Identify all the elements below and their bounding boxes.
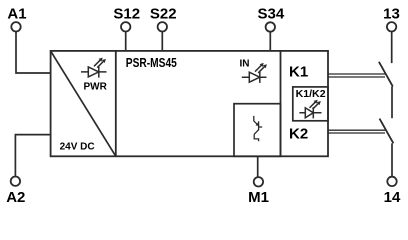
wire M1 to module	[257, 156, 259, 177]
svg-text:PWR: PWR	[84, 81, 108, 92]
mechanical linkage K1 to contact	[328, 74, 385, 77]
wire A1 to module	[16, 32, 51, 73]
svg-text:K2: K2	[289, 125, 308, 142]
terminal 13 circle	[387, 22, 396, 31]
svg-text:S12: S12	[113, 5, 140, 22]
svg-text:24V DC: 24V DC	[60, 141, 95, 152]
relay section divider	[280, 51, 282, 156]
svg-text:A2: A2	[6, 189, 25, 206]
wire S12 to module	[125, 32, 127, 51]
K1/K2 feedback box	[293, 87, 328, 121]
svg-text:M1: M1	[248, 189, 269, 206]
power supply divider	[115, 51, 117, 156]
terminal S34 circle	[266, 22, 275, 31]
svg-text:13: 13	[383, 5, 400, 22]
wire A2 to module	[15, 135, 50, 177]
electronic switch symbol	[254, 116, 262, 141]
terminal S22 circle	[158, 22, 167, 31]
svg-text:14: 14	[384, 189, 401, 206]
svg-text:A1: A1	[7, 5, 26, 22]
electronic output box	[234, 104, 281, 157]
svg-text:S34: S34	[258, 5, 285, 22]
wire S22 to module	[161, 32, 163, 51]
LED PWR symbol	[81, 58, 107, 78]
LED IN symbol	[242, 63, 267, 83]
wire contact K1 to contact K2	[391, 87, 393, 119]
LED K1/K2 symbol	[299, 100, 321, 119]
terminal S12 circle	[121, 22, 130, 31]
terminal M1 circle	[254, 177, 263, 186]
contact K2 blade	[380, 119, 394, 144]
svg-text:K1: K1	[289, 64, 308, 81]
module outline box	[51, 51, 328, 156]
mechanical linkage K2 to contact	[328, 130, 385, 133]
svg-text:S22: S22	[150, 5, 177, 22]
terminal A2 circle	[11, 177, 20, 186]
power supply diagonal	[51, 51, 116, 156]
wire 13 to contact K1	[391, 32, 393, 63]
svg-text:PSR-MS45: PSR-MS45	[126, 56, 177, 70]
contact K1 blade	[379, 62, 393, 87]
wire S34 to module	[269, 32, 271, 51]
terminal 14 circle	[387, 177, 396, 186]
svg-text:K1/K2: K1/K2	[296, 89, 326, 100]
wire contact K2 to terminal 14	[391, 143, 393, 176]
terminal A1 circle	[11, 22, 20, 31]
svg-text:IN: IN	[240, 59, 250, 70]
